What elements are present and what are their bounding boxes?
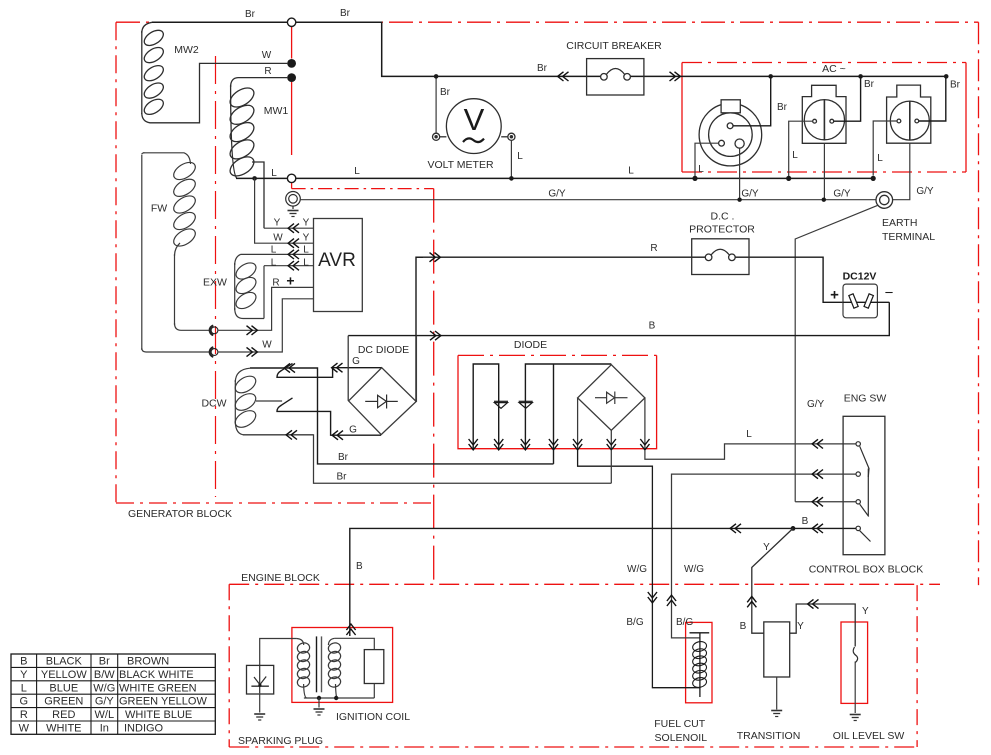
svg-text:L: L <box>271 245 277 256</box>
svg-text:BLUE: BLUE <box>49 682 78 694</box>
coil DCW <box>232 368 313 435</box>
svg-text:MW2: MW2 <box>174 44 199 56</box>
svg-text:BROWN: BROWN <box>127 656 169 668</box>
svg-text:DC12V: DC12V <box>843 271 877 283</box>
svg-text:B: B <box>20 656 27 668</box>
connector tick G top <box>281 363 293 371</box>
coil FW <box>142 153 211 352</box>
chevron <box>288 261 299 270</box>
svg-text:Br: Br <box>340 8 351 19</box>
node junction <box>737 198 741 202</box>
svg-text:DC DIODE: DC DIODE <box>358 344 409 356</box>
svg-text:AVR: AVR <box>318 250 356 271</box>
node junction <box>822 198 826 202</box>
node junction <box>858 74 863 79</box>
node junction <box>944 74 949 79</box>
svg-text:+: + <box>830 287 839 304</box>
wire J2 pin Br <box>834 76 861 121</box>
svg-text:WHITE BLUE: WHITE BLUE <box>125 709 192 721</box>
diode block hook 1 <box>473 364 499 450</box>
svg-text:R: R <box>264 66 271 77</box>
svg-text:Y: Y <box>20 669 28 681</box>
fuel cut solenoid L1 <box>690 633 710 697</box>
wire DCW bottom tap to Br2 <box>243 435 611 483</box>
svg-text:W: W <box>262 50 272 61</box>
arrow up Y <box>747 596 756 607</box>
AC receptacle red box <box>682 63 966 173</box>
wire J1 pin Br <box>733 76 771 125</box>
sensing red wire <box>291 26 293 188</box>
chevron <box>730 524 741 533</box>
node R terminal dot <box>287 73 296 82</box>
coil MW2 <box>142 22 288 123</box>
svg-text:L: L <box>698 164 704 175</box>
node junction <box>334 696 338 700</box>
svg-text:TERMINAL: TERMINAL <box>882 231 935 243</box>
ground ignition coil <box>314 709 325 715</box>
wire DCW top tap to Br1 <box>250 368 554 464</box>
svg-text:−: − <box>885 285 894 302</box>
output arrows of diode block <box>469 439 650 450</box>
svg-text:RED: RED <box>52 709 75 721</box>
ignition coil T1 primary <box>296 639 310 699</box>
wire J3 pin Br <box>919 76 946 121</box>
connector bullet 1 <box>210 326 218 336</box>
wire G to DC diode top <box>277 368 382 378</box>
svg-text:FW: FW <box>151 203 167 215</box>
svg-text:L: L <box>354 166 360 177</box>
eng sw pins <box>856 442 860 531</box>
svg-text:EARTH: EARTH <box>882 217 917 229</box>
svg-text:B: B <box>649 321 656 332</box>
ignition coil core <box>316 636 318 692</box>
svg-text:MW1: MW1 <box>264 105 289 117</box>
svg-text:B/G: B/G <box>676 617 693 628</box>
svg-text:CONTROL BOX BLOCK: CONTROL BOX BLOCK <box>809 564 924 576</box>
svg-text:Br: Br <box>537 63 548 74</box>
svg-text:EXW: EXW <box>203 277 227 289</box>
node junction <box>786 176 791 181</box>
ground transition <box>771 711 782 717</box>
svg-text:L: L <box>21 682 27 694</box>
svg-text:GREEN YELLOW: GREEN YELLOW <box>119 696 207 708</box>
svg-text:SOLENOIL: SOLENOIL <box>655 732 708 744</box>
ignition coil secondary <box>327 638 341 698</box>
svg-text:Y: Y <box>797 621 804 632</box>
svg-text:L: L <box>877 153 883 164</box>
svg-text:W/G: W/G <box>627 564 647 575</box>
legend text <box>19 656 208 735</box>
svg-text:G/Y: G/Y <box>548 189 566 200</box>
wire AVR pin L lower <box>264 266 314 319</box>
wire J3 pin G/Y <box>893 143 910 200</box>
svg-text:R: R <box>20 709 28 721</box>
coil EXW <box>233 254 264 318</box>
svg-text:Br: Br <box>864 79 875 90</box>
svg-text:Br: Br <box>99 656 110 668</box>
wire Br top right segment <box>296 22 946 76</box>
wire Y transition to oil level sw <box>790 604 856 647</box>
svg-text:B/W: B/W <box>94 669 115 681</box>
svg-text:G/Y: G/Y <box>741 189 759 200</box>
wire MW1 tap to AVR Y <box>252 162 264 228</box>
wire L line left <box>236 177 287 179</box>
svg-text:Br: Br <box>777 102 788 113</box>
engine block red border <box>229 584 940 747</box>
wire coil ground <box>318 698 320 708</box>
earth symbol AVR <box>286 192 301 217</box>
svg-text:W/L: W/L <box>95 709 115 721</box>
svg-text:R: R <box>272 278 279 289</box>
svg-text:G/Y: G/Y <box>95 696 115 708</box>
circuit breaker CB1 <box>587 59 644 95</box>
wire earth to G/Y vertical <box>795 205 878 502</box>
wire G to DC diode bottom <box>277 405 381 435</box>
svg-text:INDIGO: INDIGO <box>124 723 164 735</box>
svg-text:V: V <box>464 102 485 137</box>
wire AVR pin Y <box>264 227 314 229</box>
wire voltmeter to L line <box>510 140 512 178</box>
svg-text:G: G <box>20 696 29 708</box>
svg-text:GENERATOR BLOCK: GENERATOR BLOCK <box>128 508 232 520</box>
dc protector F1 <box>692 239 749 275</box>
diode D2 symbol <box>519 401 533 408</box>
svg-text:DIODE: DIODE <box>514 339 547 351</box>
node W terminal dot <box>287 59 296 68</box>
wire AVR R out to R line <box>416 256 818 258</box>
node Br junction ring <box>287 18 295 26</box>
svg-text:+: + <box>286 273 294 289</box>
eng sw blades <box>860 446 871 541</box>
svg-text:L: L <box>271 168 277 179</box>
node junction voltmeter L <box>509 176 514 181</box>
svg-text:PROTECTOR: PROTECTOR <box>689 224 755 236</box>
bridge rectifier diamond <box>578 365 645 431</box>
wire Br1 leg4 riser <box>553 450 555 464</box>
chevron Br right <box>670 72 681 81</box>
svg-text:L: L <box>628 166 634 177</box>
chevron <box>332 363 343 372</box>
arrow up B ignition <box>346 624 355 635</box>
label ~ meter symbol <box>463 138 484 142</box>
sparking plug wire <box>260 639 297 666</box>
fuel cut solenoid red box <box>686 622 712 702</box>
receptacle J3 duplex <box>887 85 931 143</box>
wire AVR pin L upper <box>241 253 314 255</box>
wire plug to ground <box>259 693 261 712</box>
wire bridge bottom leg to Br2 <box>610 450 612 483</box>
wire W/G eng sw row2 to fuel cut <box>672 474 856 638</box>
receptacle J1 round 3-pin <box>699 100 762 166</box>
wire G/Y line <box>300 199 876 201</box>
wire transition ground <box>776 677 778 710</box>
svg-text:B: B <box>356 561 363 572</box>
node junction <box>768 74 773 79</box>
svg-text:D.C .: D.C . <box>711 211 735 223</box>
svg-text:W/G: W/G <box>93 682 115 694</box>
wire J1 pin G/Y <box>739 148 741 200</box>
oil level switch red box <box>841 622 868 703</box>
svg-text:Br: Br <box>440 87 451 98</box>
chevron <box>812 524 823 533</box>
svg-text:W: W <box>262 340 272 351</box>
svg-text:ENG SW: ENG SW <box>844 393 887 405</box>
chevron <box>808 599 819 608</box>
chevron <box>812 439 823 448</box>
wire Br top (MW2 to node) <box>152 21 287 23</box>
wire Br to volt meter <box>435 76 437 133</box>
svg-text:W: W <box>19 723 30 735</box>
svg-text:WHITE GREEN: WHITE GREEN <box>119 682 197 694</box>
svg-text:Br: Br <box>338 452 349 463</box>
oil level switch <box>853 647 857 663</box>
chevron R <box>430 253 441 262</box>
svg-text:B: B <box>740 621 747 632</box>
node junction <box>692 176 697 181</box>
node junction L/W tap <box>252 176 257 181</box>
wire W bullet2 to AVR <box>218 299 313 352</box>
wire J3 pin L <box>873 121 897 176</box>
wire R bullet1 to AVR <box>218 287 313 330</box>
node junction <box>317 696 321 700</box>
wire oil sw to ground <box>854 662 856 714</box>
svg-text:W: W <box>273 233 283 244</box>
arrow up B/G <box>667 595 676 606</box>
chevron right <box>247 326 258 335</box>
svg-text:IGNITION COIL: IGNITION COIL <box>336 711 410 723</box>
ignition resistor <box>364 650 384 684</box>
svg-text:VOLT METER: VOLT METER <box>427 159 494 171</box>
svg-text:Y: Y <box>303 218 310 229</box>
svg-text:TRANSITION: TRANSITION <box>737 730 801 742</box>
wire J1 pin L <box>695 143 719 176</box>
svg-text:ENGINE BLOCK: ENGINE BLOCK <box>241 572 320 584</box>
chevron Br left <box>558 72 569 81</box>
svg-text:L: L <box>303 258 309 269</box>
svg-text:B: B <box>802 516 809 527</box>
svg-text:DCW: DCW <box>201 398 226 410</box>
svg-text:GREEN: GREEN <box>44 696 83 708</box>
wire L line right <box>296 177 873 179</box>
svg-text:BLACK WHITE: BLACK WHITE <box>119 669 194 681</box>
svg-text:Br: Br <box>245 9 256 20</box>
earth terminal E1 <box>876 192 893 209</box>
svg-text:OIL LEVEL SW: OIL LEVEL SW <box>833 730 905 742</box>
chevron <box>288 239 299 248</box>
wire R to DC12V plus <box>818 257 843 302</box>
stator/rotor red divider <box>215 56 217 497</box>
ignition bottom wire <box>304 684 374 699</box>
transition box <box>764 622 790 677</box>
svg-text:AC ~: AC ~ <box>822 63 846 75</box>
svg-text:In: In <box>100 723 109 735</box>
connector tick G bottom <box>281 398 293 406</box>
svg-text:B/G: B/G <box>626 617 643 628</box>
wire G/Y eng sw row3 <box>795 501 856 503</box>
node junction B/Y <box>791 526 796 531</box>
svg-text:R: R <box>650 243 657 254</box>
svg-text:G: G <box>352 356 360 367</box>
chevron <box>286 430 297 439</box>
diode block hook 2 <box>525 364 611 450</box>
svg-text:WHITE: WHITE <box>46 723 81 735</box>
diode block red box <box>458 355 657 448</box>
volt meter M1 <box>433 99 516 154</box>
chevron <box>332 431 343 440</box>
generator block red border <box>116 22 979 584</box>
chevron B <box>430 331 441 340</box>
svg-text:G/Y: G/Y <box>833 189 851 200</box>
svg-text:L: L <box>517 151 523 162</box>
coil MW1 <box>227 78 288 180</box>
chevron <box>288 250 299 259</box>
chevron <box>284 363 295 372</box>
node junction L end <box>871 176 876 181</box>
connector bullet 2 <box>210 347 218 357</box>
svg-text:L: L <box>792 150 798 161</box>
wire W/G from bridge left to fuel cut <box>578 450 700 688</box>
svg-text:G: G <box>349 425 357 436</box>
AVR U1 <box>314 219 363 312</box>
svg-text:G/Y: G/Y <box>807 399 825 410</box>
chevron right <box>247 347 258 356</box>
svg-text:Y: Y <box>763 542 770 553</box>
wire B line <box>348 302 889 335</box>
DC diode symbol <box>365 395 398 409</box>
chevron <box>288 224 299 233</box>
node L connector ring <box>287 174 295 182</box>
diode D1 symbol <box>494 401 508 408</box>
DC diode rectifier box <box>348 336 416 435</box>
wire R riser from DC diode <box>416 257 423 401</box>
control box block red border right <box>978 22 980 585</box>
svg-text:FUEL CUT: FUEL CUT <box>654 718 706 730</box>
wire L from bridge right to ENG SW <box>645 444 856 459</box>
legend table <box>11 654 215 734</box>
eng sw box S1 <box>843 416 885 554</box>
ground sparking plug <box>254 714 265 720</box>
ignition coil red box <box>292 628 393 703</box>
sparking plug PG1 <box>247 665 274 694</box>
DC12V receptacle <box>843 284 889 318</box>
chevron <box>812 497 823 506</box>
svg-text:L: L <box>271 258 277 269</box>
chevron <box>812 470 823 479</box>
wire AVR pin W <box>255 178 314 243</box>
wire J2 pin G/Y <box>823 143 825 199</box>
bridge legs <box>578 398 645 450</box>
bridge diode symbol <box>595 392 628 405</box>
arrow down W/G <box>648 592 657 603</box>
node junction Br/voltmeter <box>434 74 439 79</box>
receptacle J2 duplex <box>802 85 846 143</box>
svg-text:Y: Y <box>274 218 281 229</box>
svg-text:BLACK: BLACK <box>46 656 83 668</box>
svg-text:W/G: W/G <box>684 564 704 575</box>
svg-text:SPARKING PLUG: SPARKING PLUG <box>238 735 323 747</box>
ground oil level sw <box>850 715 861 721</box>
svg-text:Br: Br <box>337 472 348 483</box>
svg-text:Y: Y <box>303 233 310 244</box>
svg-text:L: L <box>303 245 309 256</box>
svg-text:L: L <box>746 429 752 440</box>
svg-text:Br: Br <box>950 80 961 91</box>
svg-text:G/Y: G/Y <box>916 186 934 197</box>
ignition coil top wire <box>335 638 375 649</box>
svg-text:CIRCUIT BREAKER: CIRCUIT BREAKER <box>566 40 662 52</box>
wire J2 pin L <box>789 121 813 176</box>
wire Y transition <box>752 528 793 633</box>
svg-text:YELLOW: YELLOW <box>41 669 87 681</box>
wire B eng sw row4 to ignition <box>350 528 856 636</box>
svg-text:Y: Y <box>862 606 869 617</box>
